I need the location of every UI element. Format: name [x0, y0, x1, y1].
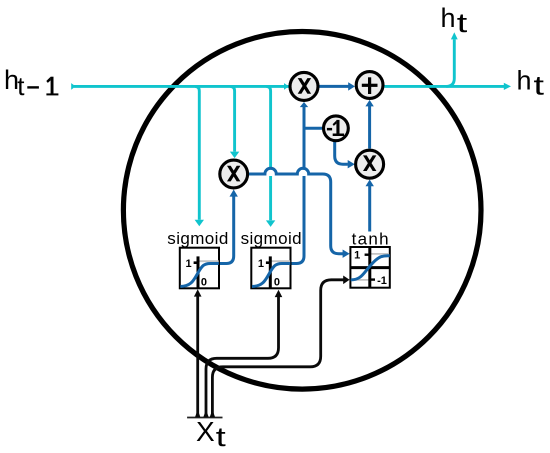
svg-text:tanh: tanh [352, 229, 390, 248]
svg-text:-1: -1 [377, 275, 387, 287]
svg-text:sigmoid: sigmoid [167, 229, 228, 248]
svg-text:1: 1 [258, 258, 264, 270]
svg-text:1: 1 [354, 250, 360, 262]
svg-text:X: X [196, 416, 215, 447]
svg-text:t: t [216, 422, 227, 452]
svg-text:t: t [457, 8, 468, 38]
svg-text:0: 0 [274, 277, 280, 289]
svg-text:0: 0 [201, 277, 207, 289]
svg-text:h: h [441, 3, 456, 33]
svg-text:1: 1 [186, 258, 192, 270]
svg-text:h: h [517, 66, 532, 96]
svg-text:t: t [534, 71, 545, 101]
svg-text:t: t [17, 71, 25, 101]
svg-text:sigmoid: sigmoid [241, 229, 302, 248]
